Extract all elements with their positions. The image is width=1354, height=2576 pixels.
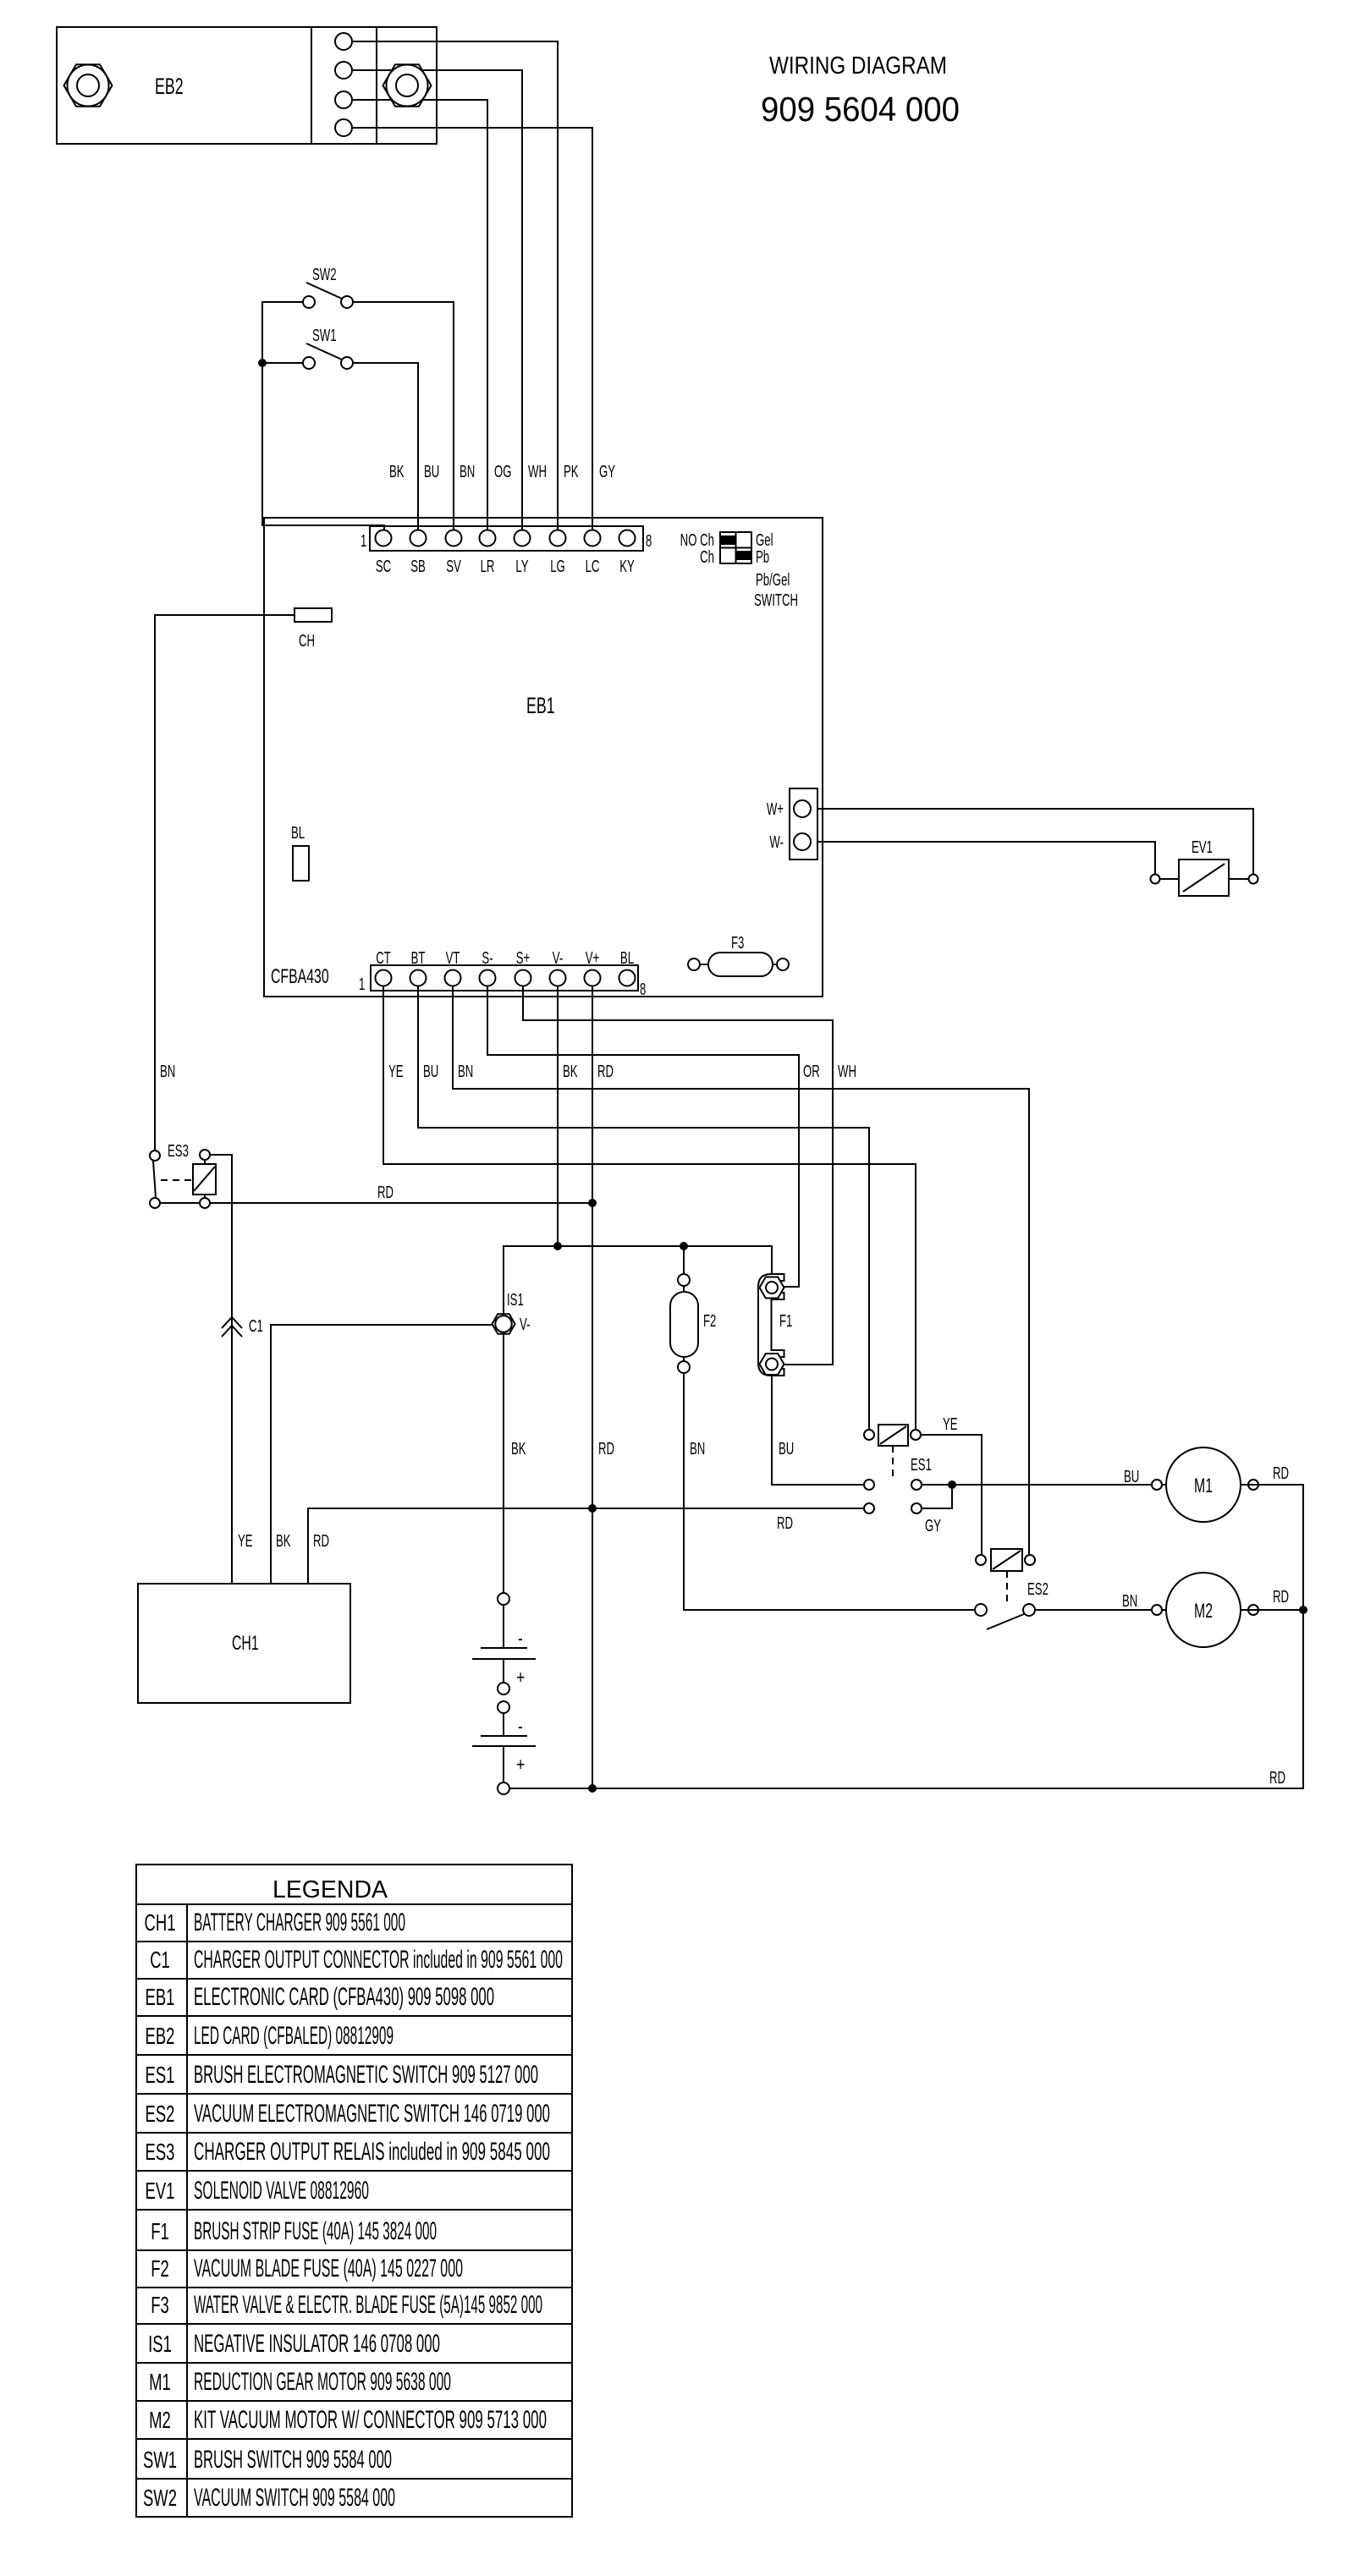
- svg-text:REDUCTION GEAR MOTOR 909 5638: REDUCTION GEAR MOTOR 909 5638 000: [194, 2368, 451, 2396]
- charger output connector C1 chevron: [222, 1317, 242, 1337]
- svg-text:OG: OG: [494, 462, 512, 481]
- wire label BU at M1: [1124, 1467, 1139, 1486]
- svg-text:BU: BU: [1124, 1467, 1139, 1486]
- svg-text:BL: BL: [291, 823, 305, 842]
- pin label LC: [586, 557, 600, 575]
- pin label SV: [446, 557, 461, 575]
- label Ch: [700, 547, 714, 566]
- wire label BU: [779, 1439, 794, 1458]
- wire label BN: [690, 1439, 705, 1458]
- battery 2: [472, 1713, 536, 1782]
- svg-text:LY: LY: [515, 557, 528, 575]
- wire label RD bottom: [1269, 1768, 1285, 1787]
- W+/W- output connector: [790, 788, 817, 860]
- svg-text:C1: C1: [249, 1316, 263, 1335]
- wire label BN: [458, 1062, 473, 1080]
- junction F2 at negative rail: [680, 1242, 688, 1250]
- wire RD from pin V+ to battery positive: [592, 986, 593, 1788]
- wire switch common BK to EB1 pin SC: [262, 302, 384, 530]
- svg-text:S-: S-: [482, 948, 493, 967]
- svg-text:ES2: ES2: [146, 2101, 175, 2128]
- ES1 contact row 1: [864, 1480, 1166, 1490]
- F1 label: [779, 1311, 792, 1330]
- wire label GY: [925, 1516, 941, 1535]
- wire label WH: [528, 462, 547, 481]
- pin label SB: [410, 557, 426, 575]
- EB1 top connector strip: [370, 526, 643, 551]
- svg-text:GY: GY: [925, 1516, 941, 1535]
- wire label BU: [423, 1062, 438, 1080]
- motor M2: [1152, 1573, 1258, 1647]
- switch SW1: [303, 326, 353, 369]
- svg-text:BK: BK: [389, 462, 405, 481]
- svg-text:VT: VT: [446, 948, 460, 967]
- wire label RD at M1: [1273, 1464, 1289, 1482]
- svg-text:RD: RD: [597, 1062, 614, 1080]
- wire EB2 pin3 to EB1 pin LR (OG): [352, 100, 487, 530]
- svg-text:BN: BN: [460, 462, 475, 481]
- wire BU from pin BT to ES1 coil: [418, 986, 869, 1430]
- svg-text:M2: M2: [1194, 1601, 1213, 1623]
- svg-text:BU: BU: [779, 1439, 794, 1458]
- svg-text:M1: M1: [149, 2370, 171, 2396]
- svg-text:SW2: SW2: [143, 2485, 177, 2512]
- EB1 label: [526, 692, 555, 718]
- pin label SC: [376, 557, 391, 575]
- Pb/Gel DIP switch: [720, 532, 751, 563]
- ES2 label: [1027, 1579, 1049, 1598]
- pin number 8 bottom strip: [640, 980, 646, 998]
- svg-text:RD: RD: [1273, 1464, 1289, 1482]
- svg-text:Pb/Gel: Pb/Gel: [756, 570, 790, 589]
- svg-text:SWITCH: SWITCH: [754, 590, 798, 609]
- svg-text:RD: RD: [777, 1513, 793, 1532]
- wire label RD row2: [777, 1513, 793, 1532]
- svg-text:M1: M1: [1194, 1475, 1213, 1497]
- CFBA430 label: [271, 966, 329, 988]
- wire SW2 to EB1 pin SV (BN): [353, 302, 454, 530]
- svg-text:CHARGER OUTPUT CONNECTOR inclu: CHARGER OUTPUT CONNECTOR included in 909…: [194, 1946, 563, 1974]
- svg-text:YE: YE: [238, 1531, 253, 1550]
- junction RD at ES3 wire: [588, 1199, 597, 1207]
- svg-text:8: 8: [640, 980, 646, 998]
- pin label KY: [619, 557, 635, 575]
- svg-text:YE: YE: [943, 1414, 958, 1433]
- legend row M2: [149, 2406, 547, 2434]
- wire label BN at M2: [1122, 1591, 1137, 1610]
- svg-text:C1: C1: [150, 1947, 170, 1974]
- legend row F3: [151, 2291, 542, 2319]
- wire RD from M2 to junction: [1241, 1609, 1303, 1611]
- svg-text:EB1: EB1: [146, 1985, 175, 2011]
- wire BN from pin VT to ES2 coil: [453, 986, 1029, 1555]
- brush strip fuse F1: [758, 1274, 784, 1376]
- svg-text:Pb: Pb: [756, 547, 769, 566]
- pin label CT: [376, 948, 391, 967]
- pin label LY: [515, 557, 528, 575]
- svg-text:EV1: EV1: [146, 2178, 175, 2205]
- svg-text:LG: LG: [550, 557, 565, 575]
- wire label RD: [377, 1183, 394, 1201]
- wire label RD: [597, 1062, 614, 1080]
- legend row EB2: [146, 2022, 394, 2050]
- svg-text:WIRING DIAGRAM: WIRING DIAGRAM: [769, 52, 947, 80]
- svg-text:LED CARD (CFBALED) 08812909: LED CARD (CFBALED) 08812909: [194, 2022, 394, 2050]
- junction BK at negative rail: [553, 1242, 562, 1250]
- pin circles top strip SC SB SV LR LY LG LC KY: [376, 530, 636, 547]
- svg-text:F2: F2: [703, 1311, 716, 1330]
- IS1 label: [507, 1290, 524, 1309]
- svg-text:ES2: ES2: [1027, 1579, 1049, 1598]
- svg-text:CFBA430: CFBA430: [271, 966, 329, 988]
- wire BU from F1 to ES1 contact: [772, 1376, 864, 1485]
- svg-text:NEGATIVE INSULATOR 146 0708 00: NEGATIVE INSULATOR 146 0708 000: [194, 2330, 440, 2358]
- wire label BK at CH1: [276, 1531, 291, 1550]
- svg-text:F1: F1: [779, 1311, 792, 1330]
- label Pb/Gel: [756, 570, 790, 589]
- wire IS1 to battery negative: [503, 1334, 504, 1593]
- svg-text:F3: F3: [731, 933, 744, 952]
- svg-text:M2: M2: [149, 2408, 171, 2434]
- svg-text:1: 1: [361, 531, 366, 550]
- svg-text:EV1: EV1: [1192, 838, 1213, 856]
- wire label BK: [563, 1062, 578, 1080]
- pin label BT: [411, 948, 426, 967]
- svg-text:KIT VACUUM MOTOR W/ CONNECTOR: KIT VACUUM MOTOR W/ CONNECTOR 909 5713 0…: [194, 2406, 547, 2434]
- svg-text:BU: BU: [423, 1062, 438, 1080]
- wire BK from pin V- to negative rail: [557, 986, 559, 1246]
- svg-text:LC: LC: [586, 557, 600, 575]
- svg-text:WATER VALVE & ELECTR. BLADE FU: WATER VALVE & ELECTR. BLADE FUSE (5A)145…: [194, 2291, 542, 2319]
- wire label RD at CH1: [313, 1531, 329, 1550]
- ES1 contact row 2 GY link: [864, 1489, 952, 1513]
- svg-text:BATTERY CHARGER 909 5561 000: BATTERY CHARGER 909 5561 000: [194, 1909, 405, 1936]
- wire label YE: [943, 1414, 958, 1433]
- motor M1: [1152, 1447, 1258, 1522]
- svg-text:V-: V-: [520, 1315, 530, 1333]
- legend row EV1: [146, 2177, 369, 2205]
- EB2 mounting nut left: [64, 64, 113, 106]
- legend row F2: [151, 2255, 463, 2282]
- pin number 1 top strip: [361, 531, 366, 550]
- wire F2 branch from negative rail: [683, 1246, 685, 1274]
- svg-text:EB2: EB2: [146, 2024, 175, 2050]
- pin number 8 top strip: [646, 531, 652, 550]
- svg-text:W+: W+: [767, 799, 784, 818]
- wire YE from pin CT to ES1 coil: [383, 986, 916, 1430]
- svg-text:ES3: ES3: [146, 2139, 175, 2166]
- title part number 909 5604 000: [761, 90, 960, 129]
- svg-text:V+: V+: [586, 948, 600, 967]
- battery charger CH1 box: [138, 1584, 350, 1703]
- legend row EB1: [146, 1983, 494, 2011]
- junction RD battery bottom: [588, 1784, 597, 1793]
- battery top terminal: [498, 1593, 509, 1605]
- wire label BN left: [160, 1062, 175, 1080]
- wire label BU: [424, 462, 439, 481]
- wire label BK: [389, 462, 405, 481]
- LED card EB2 box: [57, 27, 437, 144]
- svg-text:ES1: ES1: [146, 2062, 175, 2089]
- wire label OR: [803, 1062, 820, 1080]
- wire BK from CH1 to IS1: [271, 1325, 492, 1584]
- pin label LR: [481, 557, 495, 575]
- svg-text:BN: BN: [160, 1062, 175, 1080]
- wire label BN: [460, 462, 475, 481]
- svg-text:SB: SB: [410, 557, 426, 575]
- svg-text:LR: LR: [481, 557, 495, 575]
- svg-text:+: +: [516, 1755, 525, 1775]
- svg-text:BK: BK: [511, 1439, 526, 1458]
- wire label BK battery: [511, 1439, 526, 1458]
- legend row ES3: [146, 2138, 550, 2166]
- wire label YE: [388, 1062, 404, 1080]
- junction RD at CH1 wire: [588, 1504, 597, 1513]
- pin label VT: [446, 948, 460, 967]
- svg-text:-: -: [518, 1716, 523, 1737]
- svg-text:GY: GY: [599, 462, 615, 481]
- charger output relais ES3: [150, 1150, 216, 1208]
- vacuum blade fuse F2: [670, 1274, 698, 1373]
- svg-text:S+: S+: [516, 948, 531, 967]
- svg-text:BT: BT: [411, 948, 426, 967]
- svg-text:VACUUM SWITCH 909 5584 000: VACUUM SWITCH 909 5584 000: [194, 2484, 395, 2512]
- fuse F3: [688, 933, 789, 976]
- svg-text:LEGENDA: LEGENDA: [272, 1876, 388, 1903]
- battery bottom terminal: [498, 1782, 509, 1794]
- wire label WH: [838, 1062, 856, 1080]
- wire label GY: [599, 462, 615, 481]
- svg-text:PK: PK: [564, 462, 579, 481]
- svg-text:ES1: ES1: [911, 1455, 932, 1474]
- svg-text:909 5604 000: 909 5604 000: [761, 90, 960, 129]
- wire negative rail from IS1 to F1: [504, 1246, 772, 1314]
- svg-text:-: -: [518, 1629, 523, 1649]
- ES2 contact: [975, 1604, 1166, 1629]
- svg-text:Ch: Ch: [700, 547, 714, 566]
- solenoid valve EV1: [1151, 838, 1258, 896]
- pin label S-: [482, 948, 493, 967]
- svg-text:8: 8: [646, 531, 652, 550]
- svg-text:SW1: SW1: [312, 326, 337, 344]
- component BL on EB1: [291, 823, 309, 881]
- pin label V+: [586, 948, 600, 967]
- svg-text:SOLENOID VALVE 08812960: SOLENOID VALVE 08812960: [194, 2177, 369, 2205]
- svg-text:V-: V-: [553, 948, 563, 967]
- wire RD battery bottom to motors: [509, 1610, 1303, 1788]
- wire SW1 common branch: [262, 362, 303, 364]
- legend row SW1: [143, 2446, 392, 2474]
- svg-text:ES3: ES3: [168, 1141, 189, 1160]
- svg-text:SC: SC: [376, 557, 391, 575]
- pin label LG: [550, 557, 565, 575]
- EB1 bottom connector strip: [371, 965, 638, 991]
- svg-text:ELECTRONIC CARD (CFBA430) 909: ELECTRONIC CARD (CFBA430) 909 5098 000: [194, 1983, 494, 2011]
- wire RD from ES3 contact to V+ rail: [210, 1202, 592, 1204]
- legend row ES1: [146, 2061, 538, 2089]
- label NO Ch: [680, 530, 714, 549]
- svg-text:BN: BN: [1122, 1591, 1137, 1610]
- switch SW2: [303, 265, 353, 308]
- title WIRING DIAGRAM: [769, 52, 947, 80]
- svg-text:YE: YE: [388, 1062, 404, 1080]
- pin label V-: [553, 948, 563, 967]
- svg-text:BRUSH STRIP FUSE (40A) 145 382: BRUSH STRIP FUSE (40A) 145 3824 000: [194, 2217, 437, 2245]
- pin label S+: [516, 948, 531, 967]
- label Gel: [756, 530, 773, 549]
- electronic card EB1 box: [264, 518, 823, 997]
- svg-text:IS1: IS1: [507, 1290, 524, 1309]
- svg-text:F1: F1: [151, 2219, 169, 2245]
- svg-text:KY: KY: [619, 557, 635, 575]
- battery mid terminals: [498, 1683, 509, 1713]
- brush electromagnetic switch ES1 coil: [864, 1425, 921, 1480]
- svg-text:SW2: SW2: [312, 265, 337, 283]
- wire label YE at CH1: [238, 1531, 253, 1550]
- wire YE from ES1 coil to ES2 coil: [921, 1435, 982, 1555]
- ES1 label: [911, 1455, 932, 1474]
- svg-text:WH: WH: [528, 462, 547, 481]
- svg-text:BU: BU: [424, 462, 439, 481]
- svg-text:W-: W-: [769, 832, 784, 851]
- legend row IS1: [148, 2330, 440, 2358]
- wire WH from pin S+ to fuse F1 bottom: [523, 986, 833, 1365]
- component CH on EB1: [294, 608, 332, 651]
- battery 1: [472, 1605, 536, 1689]
- legend row M1: [149, 2368, 451, 2396]
- ES3 label: [168, 1141, 189, 1160]
- wire RD from M1 to junction: [1241, 1485, 1303, 1606]
- svg-text:RD: RD: [377, 1183, 394, 1201]
- svg-text:VACUUM BLADE FUSE (40A) 145 02: VACUUM BLADE FUSE (40A) 145 0227 000: [194, 2255, 463, 2282]
- pin circles bottom strip CT BT VT S- S+ V- V+ BL: [376, 970, 636, 986]
- svg-text:RD: RD: [1269, 1768, 1285, 1787]
- svg-text:CH1: CH1: [232, 1633, 259, 1655]
- svg-text:BK: BK: [276, 1531, 291, 1550]
- legend title LEGENDA: [272, 1876, 388, 1903]
- wire label OG: [494, 462, 512, 481]
- svg-text:EB1: EB1: [526, 692, 555, 718]
- svg-text:OR: OR: [803, 1062, 820, 1080]
- svg-text:CH: CH: [299, 631, 315, 650]
- svg-text:BN: BN: [690, 1439, 705, 1458]
- svg-text:RD: RD: [598, 1439, 614, 1458]
- pin number 1 bottom strip: [359, 975, 365, 993]
- svg-text:1: 1: [359, 975, 365, 993]
- svg-text:CH1: CH1: [145, 1910, 176, 1936]
- legend row F1: [151, 2217, 437, 2245]
- wire from ES3 coil to connector C1: [210, 1155, 232, 1584]
- EB2 connector pin circles: [335, 33, 352, 136]
- svg-text:BL: BL: [620, 948, 634, 967]
- wire EB2 pin1 to EB1 pin LG (PK): [352, 41, 558, 530]
- svg-text:BRUSH SWITCH 909 5584 000: BRUSH SWITCH 909 5584 000: [194, 2446, 392, 2474]
- F2 label: [703, 1311, 716, 1330]
- svg-text:VACUUM ELECTROMAGNETIC SWITCH: VACUUM ELECTROMAGNETIC SWITCH 146 0719 0…: [194, 2100, 550, 2128]
- svg-text:SW1: SW1: [143, 2447, 177, 2474]
- label W-: [769, 832, 784, 851]
- legend table frame: [136, 1865, 572, 2517]
- wire label RD battery: [598, 1439, 614, 1458]
- wire label PK: [564, 462, 579, 481]
- svg-text:BRUSH ELECTROMAGNETIC SWITCH: BRUSH ELECTROMAGNETIC SWITCH 909 5127 00…: [194, 2061, 538, 2089]
- svg-text:+: +: [516, 1667, 525, 1688]
- junction RD motors: [1299, 1606, 1307, 1614]
- svg-text:F3: F3: [151, 2293, 169, 2319]
- junction switch common: [258, 359, 267, 367]
- svg-text:EB2: EB2: [155, 73, 184, 99]
- wire BN from F2 to ES2 contact: [684, 1373, 975, 1610]
- C1 label: [249, 1316, 263, 1335]
- svg-text:CT: CT: [376, 948, 391, 967]
- wire W+ to EV1 right terminal: [817, 809, 1253, 875]
- EB2 mounting nut right: [383, 64, 432, 106]
- wire RD from CH1 to ES1 contact row2: [308, 1508, 864, 1584]
- negative insulator IS1: [493, 1314, 515, 1333]
- wire SW1 to EB1 pin SB (BU): [353, 363, 418, 530]
- wire EB2 pin4 to EB1 pin LC (GY): [352, 128, 592, 530]
- svg-text:RD: RD: [313, 1531, 329, 1550]
- wire EB2 pin2 to EB1 pin LY (WH): [352, 70, 522, 530]
- V- label: [520, 1315, 530, 1333]
- legend row C1: [150, 1946, 563, 1974]
- label Pb: [756, 547, 769, 566]
- vacuum electromagnetic switch ES2 coil: [976, 1549, 1035, 1606]
- legend row ES2: [146, 2100, 550, 2128]
- pin label BL: [620, 948, 634, 967]
- label W+: [767, 799, 784, 818]
- svg-text:BN: BN: [458, 1062, 473, 1080]
- wire OR from pin S- to fuse F1 top: [487, 986, 799, 1287]
- label SWITCH: [754, 590, 798, 609]
- legend row CH1: [145, 1909, 405, 1936]
- junction at ES1 output: [948, 1480, 956, 1489]
- wire W- to EV1 left terminal: [817, 842, 1155, 875]
- svg-text:IS1: IS1: [148, 2332, 172, 2358]
- svg-text:F2: F2: [151, 2256, 169, 2282]
- legend row SW2: [143, 2484, 395, 2512]
- svg-text:BK: BK: [563, 1062, 578, 1080]
- svg-text:RD: RD: [1273, 1587, 1289, 1606]
- svg-text:WH: WH: [838, 1062, 856, 1080]
- svg-text:CHARGER OUTPUT RELAIS included: CHARGER OUTPUT RELAIS included in 909 58…: [194, 2138, 550, 2166]
- svg-text:SV: SV: [446, 557, 461, 575]
- EB2 label: [155, 73, 184, 99]
- wire label RD at M2: [1273, 1587, 1289, 1606]
- wire BN from CH to ES3: [155, 615, 294, 1151]
